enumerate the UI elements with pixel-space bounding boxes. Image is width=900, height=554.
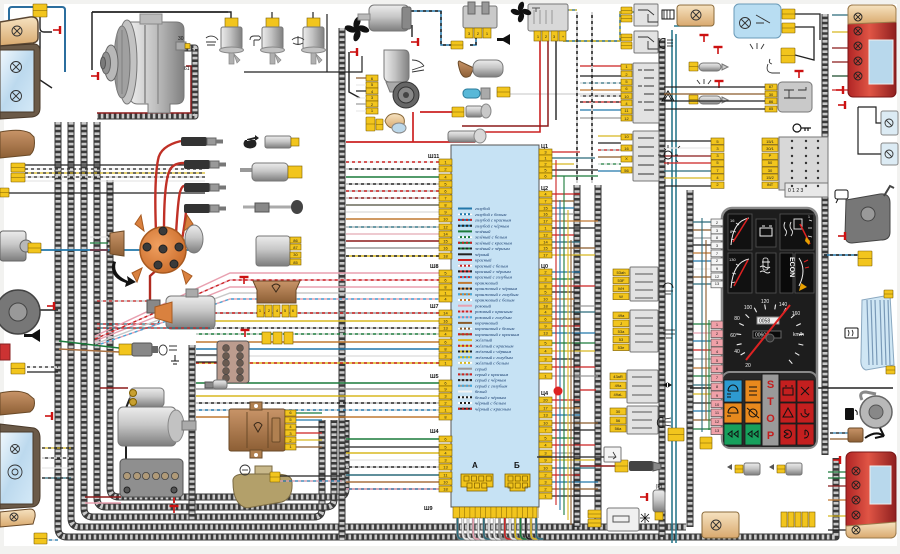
wire from block pin	[552, 254, 595, 256]
wire ignition switch	[664, 177, 711, 179]
wire to Sh11 pin	[346, 161, 439, 163]
spark plug 1	[181, 137, 223, 146]
wire sensor frame h	[244, 56, 362, 72]
white pin	[711, 227, 723, 234]
wire front marker	[46, 539, 58, 541]
wire vertical run	[559, 200, 561, 510]
lamp symbol turn	[12, 26, 22, 36]
legend wire sample	[458, 208, 472, 210]
wire top tail lamp	[832, 31, 851, 33]
svg-text:130: 130	[729, 257, 736, 262]
connector pin	[439, 159, 452, 165]
connector pin	[539, 323, 552, 329]
wire battery a	[85, 496, 121, 498]
connector pin	[539, 296, 552, 302]
icon ground coil	[159, 345, 177, 355]
wire top-left blue	[9, 7, 65, 72]
connector pin	[439, 486, 452, 492]
pink pin	[711, 383, 723, 391]
wire oxygen sensor	[580, 465, 615, 467]
wire from block pin	[552, 213, 574, 215]
wire to cluster pink pin	[693, 393, 711, 395]
svg-text:43aR: 43aR	[613, 374, 623, 379]
connector flasher a	[588, 510, 601, 518]
wire from block pin	[552, 399, 580, 401]
wire stub	[580, 389, 596, 391]
wire to Sh8 pin	[95, 280, 439, 339]
fender front	[0, 130, 35, 158]
pin label ignition	[762, 153, 778, 159]
connector pin	[439, 310, 452, 316]
wire dome lamp a	[795, 14, 820, 40]
wire vertical run	[567, 210, 569, 520]
wire from block pin	[552, 291, 580, 293]
wire battery b	[85, 502, 121, 504]
svg-text:(P): (P)	[656, 484, 663, 490]
econometer	[795, 253, 814, 293]
wire tail lamp	[828, 477, 848, 479]
fuel tank	[233, 474, 292, 508]
connector pin	[439, 360, 452, 366]
warning tile icon	[747, 408, 759, 418]
connector switch 1a	[621, 7, 632, 14]
ECON display	[780, 253, 793, 293]
clock connector red	[0, 344, 10, 360]
ht wire plug 3	[176, 186, 184, 234]
wire from block pin	[552, 437, 574, 439]
svg-text:J: J	[620, 321, 622, 326]
wire to cluster white pin	[693, 229, 711, 231]
pin label ignition	[762, 167, 778, 173]
wire spare plug brown	[59, 349, 119, 352]
wire fuel sender a	[830, 432, 848, 434]
connector pin column2	[613, 320, 629, 327]
legend wire sample	[458, 219, 472, 221]
pink pin	[711, 356, 723, 364]
connector headlamp top	[33, 4, 47, 17]
connector pin	[439, 444, 452, 450]
ht wire plug 2	[164, 163, 184, 230]
connector pin	[539, 397, 552, 403]
connector pin strip	[795, 512, 801, 527]
legend wire sample	[458, 248, 472, 250]
legend wire sample	[458, 345, 472, 347]
connector rear left	[34, 533, 47, 544]
connector pin	[539, 340, 552, 346]
wiper motor	[384, 50, 409, 82]
wire headlight connector	[25, 176, 205, 178]
wire tail lamp	[828, 529, 848, 531]
svg-text:13: 13	[443, 465, 448, 470]
svg-text:56: 56	[624, 168, 629, 173]
ignition coil	[147, 300, 160, 313]
svg-text:розовый с красным: розовый с красным	[474, 309, 512, 314]
alternator body	[130, 22, 184, 113]
warning tile icon	[801, 387, 809, 395]
wire distributor green	[90, 242, 108, 244]
pin label ignition 2	[711, 145, 724, 151]
connector pin	[539, 309, 552, 315]
ground relay 1	[240, 277, 249, 284]
warning tile icon	[727, 407, 738, 416]
pink pin	[711, 374, 723, 382]
svg-text:56a: 56a	[615, 426, 622, 431]
wire tail lamp	[828, 471, 848, 473]
icon flasher	[640, 513, 650, 523]
wire from block pin	[552, 227, 595, 229]
wire top-left black a	[40, 17, 52, 32]
svg-text:серый с красным: серый с красным	[475, 372, 508, 377]
wire to light switch	[580, 82, 621, 84]
connector pin	[539, 465, 552, 471]
wire from block pin	[552, 311, 595, 313]
svg-text:16: 16	[543, 212, 548, 217]
wire from block pin	[552, 422, 598, 424]
arrow curved	[865, 428, 884, 438]
warning lamp block	[722, 372, 817, 448]
fluid level sensor	[307, 18, 320, 28]
connector pin	[439, 393, 452, 399]
connector pin	[439, 331, 452, 337]
wire from bottom strip	[526, 518, 533, 539]
connector pin	[439, 457, 452, 463]
bulb bottom	[852, 526, 860, 534]
speedometer dial	[741, 353, 745, 356]
wire sensor frame v	[326, 14, 328, 72]
wire to Sh4 pin	[346, 438, 439, 440]
svg-text:красный с голубым: красный с голубым	[475, 275, 512, 280]
lamp symbol high	[11, 91, 22, 102]
wire to light switch	[580, 101, 621, 103]
connector pin	[539, 330, 552, 336]
svg-text:86: 86	[769, 99, 774, 104]
connector pin	[439, 296, 452, 302]
connector pin	[439, 238, 452, 244]
svg-text:S: S	[767, 379, 774, 391]
warning tile icon	[784, 430, 791, 438]
wire from block pin	[552, 459, 595, 461]
legend wire sample	[458, 293, 472, 295]
connector pin	[539, 316, 552, 322]
svg-text:15: 15	[443, 239, 448, 244]
wire red main feed	[346, 141, 475, 143]
wire top-left black b	[40, 32, 52, 88]
connector pin	[439, 346, 452, 352]
warning tile	[780, 380, 796, 402]
wire to Sh7 pin	[196, 348, 439, 350]
wire from block pin	[552, 200, 574, 202]
svg-text:18: 18	[543, 304, 548, 309]
legend wire sample	[458, 305, 472, 307]
legend wire sample	[458, 351, 472, 353]
connector pin	[439, 188, 452, 194]
wire to Sh5 pin	[196, 382, 439, 384]
icon coolant	[292, 36, 304, 45]
knock sensor unit	[486, 93, 488, 95]
wire to Sh4 pin	[346, 488, 439, 490]
connector marker	[0, 188, 9, 197]
wire to Sh5 pin	[196, 402, 439, 404]
connector pin	[439, 472, 452, 478]
connector pin wiper	[366, 75, 378, 81]
connector pin hazard	[621, 64, 632, 70]
connector pin	[539, 303, 552, 309]
svg-text:15/1: 15/1	[766, 139, 775, 144]
wire to cluster white pin	[693, 221, 711, 223]
svg-text:61: 61	[184, 66, 190, 72]
wire to cluster pink pin	[693, 419, 711, 421]
spark plug 4	[184, 204, 226, 213]
svg-text:коричневый с красным: коричневый с красным	[475, 332, 519, 337]
wire from block pin	[552, 332, 595, 334]
legend wire sample	[458, 288, 472, 290]
svg-text:красный с чёрным: красный с чёрным	[475, 269, 511, 274]
ground license	[838, 101, 845, 109]
pink pin	[711, 330, 723, 338]
wire to Sh8 pin	[95, 287, 439, 341]
fan motor (radiator)	[369, 5, 409, 31]
svg-text:14: 14	[443, 232, 448, 237]
connector pin	[439, 277, 452, 283]
svg-text:10: 10	[543, 466, 548, 471]
connector pin	[539, 276, 552, 282]
relay starter brown	[253, 281, 300, 303]
alternator pulley	[104, 45, 118, 81]
wire to cluster white pin	[693, 283, 711, 285]
wire harness left band 5	[110, 180, 346, 497]
svg-text:15: 15	[543, 206, 548, 211]
battery cell terminal	[123, 472, 130, 479]
wire regulator	[296, 439, 322, 441]
main harness connector block	[451, 145, 539, 507]
wire ignition switch	[664, 140, 711, 142]
wire to switch 2	[598, 163, 621, 165]
wire washer pump blue	[41, 238, 192, 250]
wire to Sh11 pin	[346, 218, 439, 220]
fuse	[223, 360, 230, 367]
connector oxygen	[615, 460, 628, 472]
svg-text:белый: белый	[475, 389, 487, 394]
wire clock feed	[537, 456, 604, 458]
wire sensors feed	[92, 12, 231, 20]
wire from bottom strip	[521, 518, 528, 539]
legend wire sample	[458, 282, 472, 284]
ground courtesy lamp	[700, 35, 709, 42]
connector pin	[539, 348, 552, 354]
svg-text:120: 120	[761, 299, 770, 305]
washer pump	[0, 231, 26, 261]
wire to Sh11 pin	[346, 211, 439, 213]
fender rear	[0, 391, 35, 415]
ground rear wiper	[838, 232, 845, 240]
svg-text:жёлтый с голубым: жёлтый с голубым	[475, 355, 513, 360]
wire vertical run	[563, 176, 565, 515]
wire harness right vertical 4	[687, 190, 694, 527]
defogger terminal bottom	[886, 366, 895, 374]
pin label ignition	[762, 174, 778, 180]
svg-text:16: 16	[443, 246, 448, 251]
license lamp b	[881, 143, 898, 165]
connector pin	[539, 218, 552, 224]
warning tile icon	[801, 409, 809, 417]
wire to Sh11 pin	[346, 190, 439, 192]
svg-text:53F: 53F	[618, 278, 625, 283]
temp icon window	[756, 253, 776, 293]
connector sensor mid	[452, 107, 464, 117]
fan icon 2	[510, 1, 532, 23]
connector pin	[439, 479, 452, 485]
connector pin	[439, 436, 452, 442]
connector pin horn sw	[610, 408, 626, 415]
wire regulator	[296, 419, 322, 421]
relay pin ignition	[765, 84, 777, 90]
svg-text:P: P	[767, 430, 774, 442]
connector pin column	[613, 293, 629, 300]
wire from block pin	[552, 305, 595, 307]
wire to Sh11 pin	[346, 197, 439, 199]
ht wire plug 4	[182, 207, 186, 240]
wire top tail lamp	[832, 75, 851, 77]
wire to Sh7 pin	[196, 333, 439, 335]
pin label ignition	[762, 182, 778, 188]
wire from bottom strip	[463, 518, 470, 539]
pin label ignition	[762, 160, 778, 166]
battery cell terminal	[152, 472, 159, 479]
wire to switch 2	[598, 156, 621, 158]
connector pin	[539, 356, 552, 362]
wire from block pin	[552, 495, 595, 497]
wire top tail lamp	[832, 89, 851, 91]
svg-text:голубой с белым: голубой с белым	[475, 212, 506, 217]
connector pin column2	[613, 344, 629, 351]
wire to Sh5 pin	[196, 409, 439, 411]
connector pin column	[613, 285, 629, 292]
wire vertical dashed a	[576, 12, 578, 183]
icon rays 2	[697, 79, 711, 84]
connector pin	[539, 479, 552, 485]
wire fusebox b	[196, 361, 217, 363]
wire teal pair a	[671, 30, 673, 543]
relay pin ignition	[765, 106, 777, 112]
fluid level sensor	[225, 18, 238, 28]
relay pin	[542, 31, 549, 41]
svg-text:14: 14	[543, 240, 548, 245]
wire to cluster white pin	[693, 237, 711, 239]
connector pin lighting	[621, 145, 632, 151]
battery	[120, 459, 183, 497]
wire to switch 2	[598, 142, 621, 144]
connector pin	[439, 290, 452, 296]
wire to Sh7 pin	[196, 341, 439, 343]
wire defogger feed	[690, 387, 893, 389]
warning tile	[797, 424, 814, 445]
contact dots	[791, 170, 793, 172]
connector pin	[439, 325, 452, 331]
svg-text:40: 40	[734, 349, 740, 355]
wire turn lamp	[42, 477, 71, 479]
legend wire sample	[458, 316, 472, 318]
legend wire sample	[458, 311, 472, 313]
wire distributor white	[90, 236, 108, 238]
wire to Sh11 pin	[346, 255, 439, 257]
ground tail right	[836, 86, 843, 94]
wire to cluster pink pin	[693, 332, 711, 334]
speedometer	[730, 299, 804, 369]
connector pin hazard	[621, 108, 632, 114]
ground door switch 2	[715, 81, 724, 88]
svg-text:49a: 49a	[615, 383, 622, 388]
svg-text:зелёный с красным: зелёный с красным	[474, 240, 512, 245]
connector pin strip	[781, 512, 787, 527]
wire from block pin	[552, 271, 580, 273]
wire to Sh4 pin	[346, 481, 439, 483]
connector pin	[439, 284, 452, 290]
legend wire sample	[458, 236, 472, 238]
icon hazard triangle	[662, 91, 674, 101]
connector pin	[439, 245, 452, 251]
connector pin	[539, 486, 552, 492]
icon wiper	[412, 60, 424, 72]
svg-text:T: T	[767, 396, 774, 408]
svg-text:12: 12	[715, 419, 720, 424]
wire harness right vertical 3	[659, 38, 666, 537]
wire from block pin	[552, 358, 574, 360]
wire from block pin	[552, 193, 580, 195]
svg-text:жёлтый с белым: жёлтый с белым	[475, 361, 509, 366]
oil sender	[448, 131, 478, 142]
wire to cluster pink pin	[693, 375, 711, 377]
legend wire sample	[458, 379, 472, 381]
ground jamb	[795, 71, 804, 78]
warning tile icon	[783, 408, 793, 417]
svg-text:12: 12	[715, 274, 720, 279]
wire to light switch	[580, 65, 621, 67]
connector pin	[539, 420, 552, 426]
wire vertical dashed b	[591, 12, 593, 183]
svg-text:10: 10	[443, 217, 448, 222]
connector inline fan	[451, 41, 463, 49]
wire ignition switch	[664, 185, 711, 187]
svg-text:10: 10	[543, 421, 548, 426]
connector switch 2a	[621, 34, 632, 41]
wire to cluster pink pin	[693, 349, 711, 351]
ground alternator	[91, 72, 98, 80]
svg-text:80: 80	[734, 316, 740, 322]
wire license b	[858, 107, 881, 154]
wire headlight connector	[25, 164, 205, 166]
odometer total	[753, 331, 781, 338]
wire to Sh5 pin	[196, 395, 439, 397]
wire fan relay c	[555, 41, 557, 120]
svg-text:13: 13	[715, 428, 720, 433]
legend wire sample	[458, 225, 472, 227]
regulator pin	[285, 424, 296, 430]
relay pin ignition	[765, 98, 777, 104]
wire to cluster white pin	[693, 268, 711, 270]
ground relay 2	[241, 330, 250, 337]
wire alternator 61	[97, 66, 191, 113]
voltage regulator	[229, 409, 285, 451]
connector pin	[539, 191, 552, 197]
svg-text:13: 13	[543, 413, 548, 418]
svg-text:O: O	[766, 413, 775, 425]
svg-text:53e: 53e	[618, 345, 625, 350]
wire coil aux	[97, 327, 210, 329]
connector pin	[539, 225, 552, 231]
pink pin	[711, 339, 723, 347]
wire from block pin	[552, 285, 595, 287]
connector pin	[539, 155, 552, 161]
